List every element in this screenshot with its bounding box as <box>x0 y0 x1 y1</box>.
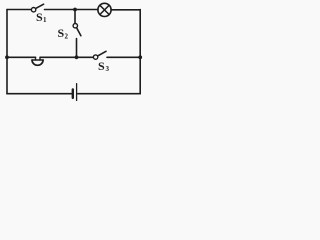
battery cell (negative short plate) <box>72 90 74 98</box>
svg-text:S: S <box>36 10 43 24</box>
wire top middle segment (S1 to lamp) <box>45 9 99 11</box>
junction dot at S2 bottom (node on middle rail) <box>75 55 79 59</box>
svg-text:S: S <box>58 26 65 40</box>
wire middle-left segment (left rail to bell) <box>7 56 36 58</box>
switch S1 <box>31 4 43 12</box>
wire top-left segment <box>7 9 31 11</box>
wire S2 branch lower (S2 contact to middle rail) <box>76 39 78 58</box>
wire middle-right segment (S3 to right rail) <box>107 56 140 58</box>
junction dot right rail / middle rail <box>138 55 142 59</box>
svg-text:2: 2 <box>65 32 69 40</box>
junction dot at S2 top (node on top rail) <box>73 8 77 12</box>
wire middle segment (bell to S3) <box>40 56 93 58</box>
wire bottom-left segment (to battery) <box>7 93 71 95</box>
battery cell (positive long plate) <box>76 84 78 101</box>
wire right vertical <box>139 10 141 94</box>
bell B1 <box>32 57 43 65</box>
switch S3 <box>93 51 106 59</box>
wire bottom-right segment (battery to corner) <box>78 93 140 95</box>
svg-text:S: S <box>98 59 105 73</box>
svg-text:3: 3 <box>106 65 110 73</box>
wire left vertical <box>6 10 8 94</box>
wire top-right segment (lamp to corner) <box>111 9 140 11</box>
svg-text:1: 1 <box>43 16 47 24</box>
wire S2 branch upper (top rail to S2 pivot) <box>74 10 76 24</box>
lamp L1 <box>98 3 111 16</box>
junction dot left rail / middle rail <box>5 55 9 59</box>
switch S2 <box>73 24 81 36</box>
